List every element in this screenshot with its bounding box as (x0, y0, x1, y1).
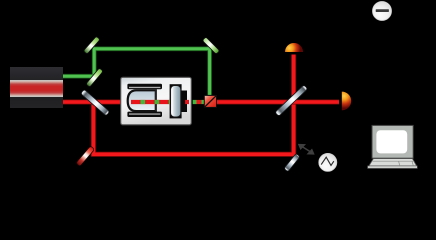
output dashed beam to cube (193, 100, 205, 104)
cavity lens (171, 86, 190, 118)
photodiode PD2 (right) (342, 92, 351, 111)
intracavity dashed beam (131, 100, 173, 104)
cavity top rod (127, 84, 162, 89)
wire: red beam cube to right PD (217, 100, 340, 105)
beamsplitter BS1 (80, 89, 109, 116)
beamsplitter cube (204, 95, 216, 107)
mirror M5 (scanning, bottom right) (284, 153, 300, 171)
wire: red beam laser to cavity box (63, 100, 122, 105)
beamsplitter BS2 (recombiner) (275, 85, 308, 117)
laptop (368, 125, 418, 168)
mirror M1 (green, lower left) (86, 68, 103, 87)
cavity box U1 (121, 77, 192, 125)
piezo scan arrow (299, 144, 314, 154)
cavity bottom rod (127, 112, 162, 117)
DC source icon (373, 2, 392, 21)
photodiode PD1 (top) (285, 43, 303, 52)
output mirror mount (170, 84, 187, 118)
curved cavity mirror (D element) (128, 90, 156, 111)
mirror M2 (green, top left) (83, 36, 100, 54)
wire: green beam laser-up-across-down to cube (63, 49, 210, 96)
laser (10, 67, 63, 108)
ramp generator icon (319, 153, 337, 171)
mirror M4 (red, bottom left) (76, 146, 95, 167)
wire: red delay arm (BS down, bottom across, up to top PD) (93, 55, 293, 155)
mirror M3 (green, top right) (202, 37, 219, 54)
